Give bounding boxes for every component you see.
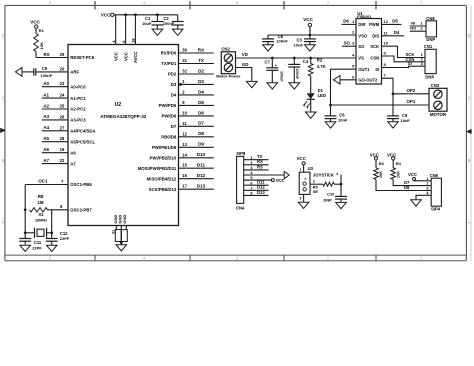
svg-text:SI: SI (375, 67, 379, 72)
wire joystick pin 4 column (336, 172, 342, 197)
capacitor C8 100nF (262, 34, 288, 44)
svg-text:VCC: VCC (123, 52, 128, 61)
ground below C8 (263, 44, 274, 51)
svg-text:ARF: ARF (70, 70, 79, 75)
op-amp U2 ATMEGA328TQFP-32 body (68, 45, 179, 226)
U2 pin 27 A4/PC4/SDA (42, 125, 96, 133)
ground below CN6 pin 4 (411, 199, 422, 206)
svg-text:PWI/PD5: PWI/PD5 (159, 103, 177, 108)
svg-text:CN3: CN3 (431, 83, 440, 88)
svg-text:12: 12 (384, 19, 389, 24)
svg-text:D13: D13 (257, 190, 265, 195)
svg-text:DNP: DNP (425, 74, 434, 79)
capacitor C9 10nF (387, 94, 410, 123)
svg-text:10nF: 10nF (401, 118, 411, 123)
svg-text:D2: D2 (198, 68, 204, 73)
svg-text:13: 13 (182, 142, 187, 147)
svg-text:U2: U2 (115, 102, 122, 108)
svg-text:D8: D8 (198, 131, 204, 136)
svg-text:1: 1 (420, 257, 422, 261)
svg-text:A2: A2 (43, 103, 49, 108)
VCC power rail to U2 (pins 4,6,18) (101, 13, 178, 63)
svg-text:24: 24 (60, 93, 65, 98)
svg-text:CN8: CN8 (426, 16, 435, 21)
svg-text:C: C (468, 96, 471, 101)
svg-text:7: 7 (250, 186, 252, 190)
U2 pin 9 PWI/PD5 net D5 (159, 100, 214, 108)
svg-text:RESET-PC6: RESET-PC6 (70, 55, 94, 60)
svg-text:1M: 1M (37, 200, 43, 205)
wire R3 to D8 row (376, 180, 425, 191)
svg-text:VCC: VCC (30, 19, 40, 24)
svg-text:D11: D11 (197, 163, 206, 168)
svg-text:CSN: CSN (370, 56, 379, 61)
svg-text:2: 2 (327, 257, 329, 261)
svg-text:0E: 0E (313, 189, 318, 194)
wire OSC2 column (24, 210, 53, 239)
U1 pin 5 OUT1 wire to OP1 (331, 64, 357, 105)
svg-text:R3: R3 (379, 161, 385, 166)
svg-text:R1: R1 (39, 28, 45, 33)
U1 pin 4 VS wire (352, 53, 355, 58)
svg-text:SIP8: SIP8 (236, 151, 246, 156)
svg-text:VCC: VCC (303, 17, 313, 22)
U1 pin 6 GO-OUT2 with ground arrow (340, 74, 356, 80)
svg-text:A5: A5 (43, 136, 49, 141)
ground below C2 (172, 28, 183, 35)
connector CN1 DNP (421, 44, 437, 79)
svg-text:VCC: VCC (408, 172, 417, 177)
svg-text:28: 28 (60, 136, 65, 141)
svg-text:C4: C4 (303, 59, 309, 64)
svg-text:RS: RS (257, 164, 263, 169)
ground below C12 (46, 244, 57, 251)
svg-text:CN1: CN1 (424, 44, 433, 49)
svg-text:2: 2 (327, 1, 329, 5)
CN4 pin 5 VCC (244, 178, 285, 183)
svg-text:19: 19 (60, 147, 65, 152)
svg-text:DNP: DNP (323, 197, 332, 202)
U1 pin 9 CSN wire (382, 51, 426, 62)
capacitor C3 10uF (294, 35, 316, 47)
svg-text:29: 29 (60, 52, 65, 57)
CN4 pin 7 (244, 185, 269, 191)
svg-text:1: 1 (420, 1, 422, 5)
svg-text:OC1: OC1 (38, 179, 48, 184)
U1 pin 10 SCK wire (382, 41, 426, 58)
svg-text:10uF: 10uF (142, 21, 152, 26)
crystal X1 16MHz (25, 212, 52, 238)
svg-text:D8: D8 (404, 185, 410, 190)
svg-text:1: 1 (426, 177, 428, 181)
ground below D1 (305, 111, 316, 118)
ground below C7 (267, 82, 278, 89)
svg-text:ATMEGA328TQFP-32: ATMEGA328TQFP-32 (100, 114, 147, 119)
svg-text:OP2: OP2 (407, 88, 416, 93)
capacitor C12 22PF (46, 231, 70, 244)
svg-text:3: 3 (236, 257, 238, 261)
U1 pin 3 SO net (342, 41, 356, 47)
ground below C9 (388, 121, 399, 128)
svg-text:SCK: SCK (370, 44, 379, 49)
svg-text:PWM: PWM (369, 22, 380, 27)
U2 pin 13 PWI/PB1/D9 net D9 (152, 142, 214, 150)
ground below C10 (336, 202, 347, 209)
svg-text:TX: TX (198, 58, 205, 63)
connector CN6 SIP4 (425, 173, 441, 211)
svg-text:VCC: VCC (113, 52, 118, 61)
ground below GD (247, 81, 258, 88)
svg-text:B: B (468, 158, 471, 163)
svg-text:4: 4 (336, 172, 338, 176)
svg-text:C11: C11 (34, 240, 42, 245)
ground arrow at U1 pin 6 (333, 76, 340, 85)
U1 pin 2 VSO wire from VCC (352, 30, 355, 35)
svg-text:D13: D13 (197, 184, 206, 189)
LED D1 (304, 76, 326, 111)
svg-text:DIS: DIS (372, 33, 379, 38)
CN4 pin 4 (244, 171, 254, 175)
svg-text:C10: C10 (327, 192, 335, 197)
ground arrow left of C5 (15, 68, 22, 77)
U2 pin 29 wire (RESET net RS) (36, 52, 68, 58)
ground below C6 (325, 121, 336, 128)
U2 GND pins 3,5,21 (112, 215, 128, 244)
svg-text:D4: D4 (171, 93, 177, 98)
svg-text:SIP4: SIP4 (431, 207, 441, 212)
svg-text:D4: D4 (394, 30, 400, 35)
svg-text:OP1: OP1 (407, 99, 416, 104)
connector CN3 MOTOR (429, 83, 447, 117)
svg-text:GND: GND (122, 215, 127, 224)
svg-text:27: 27 (60, 125, 65, 130)
svg-text:RX/PD0: RX/PD0 (161, 51, 177, 56)
svg-text:16MHz: 16MHz (35, 218, 47, 223)
svg-text:22PF: 22PF (32, 246, 42, 251)
svg-text:16: 16 (182, 173, 187, 178)
svg-text:B: B (2, 158, 5, 163)
svg-text:3: 3 (300, 196, 302, 200)
svg-text:10K: 10K (396, 171, 400, 178)
svg-text:RS: RS (44, 52, 50, 57)
svg-text:CN2: CN2 (221, 46, 230, 51)
svg-text:3: 3 (250, 166, 252, 170)
U2 pin 19 A6 (42, 147, 77, 155)
svg-text:JOYSTICK: JOYSTICK (313, 172, 334, 177)
svg-text:PWI/PB1/D9: PWI/PB1/D9 (152, 145, 177, 150)
svg-text:GO-OUT2: GO-OUT2 (358, 78, 378, 83)
svg-text:D3: D3 (171, 82, 177, 87)
ground arrow right CN4 pin 4 (284, 171, 289, 178)
svg-text:A: A (2, 220, 5, 225)
svg-text:4.7K: 4.7K (317, 64, 326, 69)
svg-text:A1-PC1: A1-PC1 (70, 96, 86, 101)
svg-text:4: 4 (143, 1, 145, 5)
U2 pin 1 D3 net D3 (171, 79, 214, 87)
capacitor C4 100nF (288, 58, 309, 82)
capacitor C10 DNP (323, 192, 347, 203)
U2 pin 23 A0-PC0 (42, 81, 86, 89)
svg-text:100nF: 100nF (295, 68, 299, 79)
svg-text:10uF: 10uF (294, 42, 304, 47)
svg-text:SCK/PB5/D13: SCK/PB5/D13 (149, 187, 177, 192)
svg-text:D7: D7 (198, 121, 204, 126)
U1 pin 7 wire to OP2 (382, 73, 394, 94)
wire OP2 to CN3 (392, 88, 429, 95)
svg-text:MISO/PB4/D12: MISO/PB4/D12 (147, 176, 177, 181)
svg-text:14: 14 (182, 152, 187, 157)
svg-text:6: 6 (250, 181, 252, 185)
U2 pin 22 A7 (42, 158, 77, 166)
wire VD / VS rail (236, 52, 357, 59)
U2 pin 26 A3-PC3 (42, 114, 86, 122)
svg-text:SI: SI (408, 61, 412, 66)
U2 pin 32 PD2 net D2 (168, 68, 214, 76)
svg-text:100nF: 100nF (163, 21, 175, 26)
svg-text:D7: D7 (171, 124, 177, 129)
svg-text:DIR: DIR (358, 22, 365, 27)
ground below C1 (152, 28, 163, 35)
U1 pin 1 DIR/PWM net D6 (342, 19, 357, 25)
U2 pin 8 OSC2-PB7 (52, 204, 93, 213)
svg-text:Motor Power: Motor Power (216, 74, 241, 79)
capacitor C6 10nF (325, 105, 348, 122)
svg-text:OSC2-PB7: OSC2-PB7 (70, 208, 92, 213)
U1 pin 8 SI wire (382, 61, 426, 68)
svg-text:D6: D6 (198, 110, 204, 115)
svg-text:23: 23 (60, 81, 65, 86)
svg-text:26: 26 (60, 114, 65, 119)
resistor R1 10K pull-up with VCC (30, 19, 44, 57)
svg-text:LED: LED (318, 93, 326, 98)
svg-text:3: 3 (236, 1, 238, 5)
wire OSC1 column (24, 185, 27, 239)
svg-text:22PF: 22PF (60, 236, 70, 241)
svg-text:30: 30 (182, 48, 187, 53)
svg-text:A2-PC2: A2-PC2 (70, 107, 86, 112)
ground below C4 (289, 82, 300, 89)
svg-text:A: A (468, 220, 471, 225)
svg-text:A7: A7 (43, 158, 49, 163)
svg-text:1: 1 (300, 168, 302, 172)
svg-text:A7: A7 (70, 161, 76, 166)
svg-text:VCC: VCC (276, 178, 285, 183)
resistor R8 1M (30, 194, 52, 212)
U2 pin 25 A2-PC2 (42, 103, 86, 111)
svg-text:10K: 10K (379, 171, 383, 178)
svg-text:15: 15 (182, 163, 187, 168)
svg-text:100uF: 100uF (279, 71, 283, 82)
svg-text:D3: D3 (198, 79, 204, 84)
svg-text:A1: A1 (43, 92, 49, 97)
CN6 pin 4 ground wire (416, 195, 425, 199)
svg-text:SO: SO (344, 41, 351, 46)
connector CN4 SIP8 (236, 151, 246, 211)
VCC tap for U1 (268, 17, 356, 36)
svg-text:RX: RX (198, 47, 205, 52)
svg-text:1: 1 (250, 156, 252, 160)
svg-text:D9: D9 (198, 142, 204, 147)
svg-text:MOSI/PWI/PB3/D11: MOSI/PWI/PB3/D11 (138, 166, 177, 171)
svg-text:A0: A0 (43, 81, 49, 86)
wire R4 to D7 row (393, 180, 425, 186)
svg-text:D5: D5 (392, 19, 398, 24)
svg-text:11: 11 (182, 121, 187, 126)
CN4 pin 8 (244, 190, 269, 196)
svg-text:NO: NO (410, 26, 416, 31)
U2 pin 17 SCK/PB5/D13 net D13 (149, 184, 214, 192)
connector CN2 Motor Power (216, 46, 241, 78)
svg-text:PB0/D8: PB0/D8 (161, 135, 177, 140)
U2 pin 31 TX/PD1 net TX (161, 58, 214, 66)
svg-text:TX/PD1: TX/PD1 (161, 61, 177, 66)
capacitor C11 22PF (19, 239, 42, 251)
svg-text:2: 2 (250, 161, 252, 165)
IC U1 FXB201 motor driver body (356, 11, 382, 84)
svg-text:2: 2 (426, 182, 428, 186)
svg-text:D6: D6 (343, 19, 349, 24)
svg-text:OSC1-PB6: OSC1-PB6 (70, 182, 92, 187)
capacitor C5 100nF on AREF (22, 66, 68, 78)
svg-text:A4/PC4/SDA: A4/PC4/SDA (70, 129, 95, 134)
resistor R4 10K with VCC (387, 152, 402, 179)
wire OP1 to CN3 (329, 99, 429, 106)
svg-text:2: 2 (313, 179, 315, 183)
svg-text:10: 10 (182, 110, 187, 115)
svg-text:31: 31 (182, 58, 187, 63)
U2 pin 12 PB0/D8 net D8 (161, 131, 214, 139)
svg-text:17: 17 (182, 184, 187, 189)
joystick U3 (297, 156, 334, 194)
CN4 pin 2 (244, 159, 269, 165)
svg-text:100nF: 100nF (276, 39, 288, 44)
svg-text:PWI/D6: PWI/D6 (161, 114, 176, 119)
VCC for CN6 pin 1 (408, 172, 425, 181)
svg-text:PD2: PD2 (168, 72, 177, 77)
U2 pin 11 D7 net D7 (171, 121, 214, 129)
U1 pin 11 net D4 (382, 30, 405, 36)
U2 pin 30 RX/PD0 net RX (161, 47, 214, 55)
svg-text:VCC: VCC (297, 156, 307, 161)
svg-text:18: 18 (131, 38, 136, 43)
U2 pin 20 ARF (60, 66, 80, 74)
svg-text:A5/PC5/SCL: A5/PC5/SCL (70, 139, 95, 144)
U2 pin 28 A5/PC5/SCL (42, 136, 96, 144)
capacitor C1 10uF (142, 15, 163, 28)
U2 pin 2 D4 net D4 (171, 89, 214, 97)
svg-text:A3-PC3: A3-PC3 (70, 118, 86, 123)
U3 pin 2 wire (310, 179, 323, 184)
svg-text:R2: R2 (317, 58, 323, 63)
U2 pin 10 PWI/D6 net D6 (161, 110, 213, 118)
svg-text:VD: VD (242, 52, 248, 57)
CN4 pin 3 (244, 164, 269, 170)
capacitor C7 100uF (264, 58, 283, 82)
svg-text:D4: D4 (198, 89, 204, 94)
resistor R5 0E (313, 182, 341, 194)
U2 pin 15 MOSI/PWI/PB3/D11 net D11 (138, 163, 214, 171)
svg-text:VSO: VSO (358, 33, 368, 38)
svg-text:MOTOR: MOTOR (430, 112, 447, 117)
CN4 pin 4 ground arrow wire (244, 174, 285, 176)
resistor R2 4.7K (308, 58, 325, 76)
svg-text:A6: A6 (70, 150, 76, 155)
svg-text:DNP: DNP (426, 37, 435, 42)
svg-text:5: 5 (49, 1, 51, 5)
svg-text:D12: D12 (197, 173, 206, 178)
svg-text:A4: A4 (43, 125, 49, 130)
connector CN8 DNP (410, 16, 437, 42)
svg-text:25: 25 (60, 104, 65, 109)
svg-text:CN4: CN4 (236, 206, 245, 211)
U2 pin 16 MISO/PB4/D12 net D12 (147, 173, 214, 181)
svg-text:SO: SO (358, 44, 365, 49)
svg-text:CN6: CN6 (430, 173, 439, 178)
svg-text:20: 20 (60, 66, 65, 71)
svg-text:VCC: VCC (101, 13, 111, 18)
svg-text:D: D (2, 33, 5, 38)
ground below C3 (305, 44, 316, 51)
svg-text:A3: A3 (43, 114, 49, 119)
svg-text:C: C (2, 96, 5, 101)
svg-text:100nF: 100nF (41, 73, 53, 78)
svg-text:A6: A6 (43, 147, 49, 152)
svg-text:22: 22 (60, 158, 65, 163)
svg-text:10nF: 10nF (338, 117, 348, 122)
U2 pin 7 OSC1-PB6 with net OC1 (25, 179, 92, 188)
U2 pin 14 PWI/PB2/D10 net D10 (150, 152, 214, 160)
svg-text:5: 5 (49, 257, 51, 261)
svg-text:A0-PC0: A0-PC0 (70, 84, 86, 89)
svg-text:3: 3 (426, 187, 428, 191)
svg-text:X1: X1 (38, 212, 44, 217)
svg-text:D: D (468, 33, 471, 38)
ground below U2 (116, 243, 127, 251)
U2 pin 24 A1-PC1 (42, 92, 86, 100)
svg-text:C12: C12 (60, 231, 68, 236)
svg-text:4: 4 (143, 257, 145, 261)
svg-text:AVCC: AVCC (133, 51, 138, 63)
CN4 pin 5 (244, 176, 253, 180)
svg-text:VS: VS (358, 56, 364, 61)
U1 pin 12 net D5 (382, 19, 402, 25)
wire GD to ground (236, 62, 252, 81)
CN4 pin 6 (244, 180, 269, 186)
svg-text:D5: D5 (198, 100, 204, 105)
svg-text:D10: D10 (197, 152, 206, 157)
capacitor C2 100nF (163, 15, 184, 28)
ground below U3 (300, 194, 304, 201)
svg-text:12: 12 (182, 131, 187, 136)
svg-text:32: 32 (182, 69, 187, 74)
resistor R3 10K with VCC (370, 152, 385, 179)
CN4 pin 1 (244, 154, 269, 160)
svg-text:10: 10 (384, 41, 389, 46)
svg-text:C5: C5 (42, 66, 48, 71)
U2 pin 29 RESET-PC6 (60, 52, 95, 60)
svg-text:GD: GD (242, 62, 249, 67)
svg-text:C7: C7 (264, 59, 270, 64)
svg-text:PWI/PB2/D10: PWI/PB2/D10 (150, 156, 177, 161)
svg-text:R8: R8 (38, 194, 44, 199)
svg-text:8: 8 (250, 192, 252, 196)
svg-text:R4: R4 (396, 161, 402, 166)
svg-text:U3: U3 (308, 166, 314, 171)
svg-text:OUT1: OUT1 (358, 67, 370, 72)
ground below C11 (20, 244, 31, 251)
svg-text:10K: 10K (39, 42, 44, 49)
